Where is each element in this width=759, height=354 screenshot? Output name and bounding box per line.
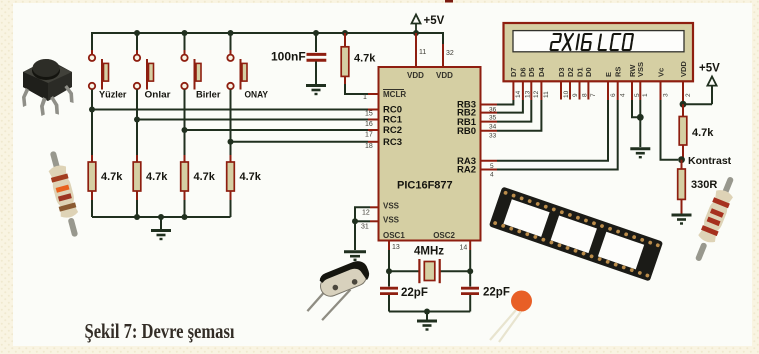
LCD pin labels [509,61,688,77]
display module 2X16 LCD [504,23,694,81]
wire: VDD pin 11 drop [415,33,417,67]
svg-text:2: 2 [685,93,692,97]
svg-text:3: 3 [662,93,669,97]
photo: DIP-40 socket [489,186,663,281]
capacitor 22pF (right) [461,271,510,311]
svg-text:VDD: VDD [436,71,453,80]
junction ONAY/RC3 [228,139,234,145]
svg-text:Onlar: Onlar [145,90,172,100]
resistor 4.7k (contrast) [679,104,714,160]
svg-text:17: 17 [365,132,373,139]
svg-text:22pF: 22pF [401,287,428,299]
wire: Vc to Kontrast node [661,100,679,160]
junction on rail at C-100nF [313,30,319,36]
svg-text:4.7k: 4.7k [692,127,714,139]
capacitor 22pF (left) [380,271,428,311]
junction bottom rail / ground [158,214,164,220]
wire: Birler column down [184,90,186,163]
wire: PIC VSS pin12 [355,207,379,221]
svg-text:E: E [604,72,613,77]
svg-text:Kontrast: Kontrast [688,155,732,167]
power symbol +5V (top) [412,15,421,34]
wire: Onlar top drop [136,33,138,55]
pushbutton ONAY [227,55,268,100]
wire: RW to VSS junction [632,100,640,117]
svg-text:32: 32 [446,50,454,57]
svg-text:34: 34 [489,124,497,131]
svg-text:Vc: Vc [656,68,665,77]
svg-text:5: 5 [634,93,641,97]
wire: D4 to RB0 [481,100,542,131]
svg-text:4: 4 [620,93,627,97]
svg-text:D7: D7 [509,67,518,77]
wire: oscillator bottom rail [389,311,470,313]
wire: RC1 row [137,119,379,121]
wire: ONAY column down [230,90,232,163]
photo: resistor (left) [44,149,84,239]
resistor 4.7k (MCLR pull-up) [341,33,376,84]
junction bottom rail / Onlar [134,214,140,220]
svg-text:D5: D5 [527,67,536,77]
svg-text:VSS: VSS [383,202,400,211]
svg-text:RB0: RB0 [457,126,476,137]
svg-text:D4: D4 [537,67,546,77]
wire: pull-up to MCLR [345,84,379,94]
svg-text:VSS: VSS [636,62,645,77]
svg-text:D0: D0 [584,67,593,77]
photo: resistor (right) [689,174,739,264]
wire: E to RA3 [481,100,609,161]
wire: Yüzler column down [91,90,93,163]
svg-text:16: 16 [365,121,373,128]
crystal X1 4MHz [389,259,470,283]
wire: ONAY top drop [230,33,232,55]
wire: RC2 row [185,129,379,131]
svg-text:VDD: VDD [679,61,688,77]
svg-text:VDD: VDD [407,71,424,80]
ground (LCD VSS) [630,149,650,158]
svg-text:22pF: 22pF [483,287,510,299]
svg-text:RS: RS [614,67,623,77]
svg-text:4.7k: 4.7k [354,53,376,65]
wire: D7 to RB3 [481,100,514,105]
svg-text:14: 14 [460,245,468,252]
svg-text:1: 1 [642,93,649,97]
svg-text:18: 18 [365,143,373,150]
ground (oscillator) [417,312,437,330]
svg-text:10: 10 [563,90,570,98]
svg-text:OSC1: OSC1 [383,231,405,240]
svg-text:D1: D1 [575,67,584,77]
svg-text:4.7k: 4.7k [240,171,262,183]
svg-text:31: 31 [361,224,369,231]
wire: Birler top drop [184,33,186,55]
wire: RC0 row [92,109,379,111]
junction OSC2/crystal [467,268,473,274]
svg-text:5: 5 [490,163,494,170]
wire: LCD VSS down [639,100,641,147]
svg-text:PIC16F877: PIC16F877 [397,180,453,192]
junction Yüzler/RC0 [89,107,95,113]
wire: RS to RA2 [481,100,618,170]
svg-text:6: 6 [610,93,617,97]
junction bottom rail / Birler [182,214,188,220]
svg-text:RA2: RA2 [457,165,476,176]
junction on rail at R-pullup [342,30,348,36]
wire: RC3 row [231,141,379,143]
svg-text:100nF: 100nF [271,50,306,64]
pushbutton Onlar [134,55,171,100]
svg-text:13: 13 [525,90,532,98]
junction on rail at ONAY [228,30,234,36]
junction Birler/RC2 [182,127,188,133]
svg-text:MCLR: MCLR [383,90,406,99]
junction on rail at +5V [413,30,419,36]
svg-text:OSC2: OSC2 [433,231,455,240]
junction osc rail / ground [424,309,430,315]
svg-text:VSS: VSS [383,216,400,225]
svg-text:33: 33 [489,133,497,140]
svg-text:RC3: RC3 [383,137,402,148]
wire: OSC2 drop [469,241,471,272]
resistor 330R [678,160,718,214]
svg-text:Birler: Birler [196,90,221,100]
svg-text:D3: D3 [557,67,566,77]
junction RW/VSS [637,114,644,121]
svg-text:35: 35 [489,115,497,122]
ground (330R) [672,215,692,224]
pushbutton Yüzler [89,55,127,100]
wire: D6 to RB2 [481,100,523,113]
wire: D5 to RB1 [481,100,532,122]
microcontroller U1 PIC16F877 [379,67,481,241]
page artifact [445,0,453,3]
ground (100nF) [306,86,326,95]
svg-text:11: 11 [543,91,550,98]
pushbutton Birler [181,55,221,100]
wire: OSC1 drop [388,241,390,272]
svg-text:11: 11 [419,49,426,56]
svg-text:D2: D2 [566,67,575,77]
svg-text:4MHz: 4MHz [414,246,444,258]
junction OSC1/crystal [386,268,392,274]
resistor 4.7k (Onlar pulldown) [133,155,168,200]
svg-text:+5V: +5V [424,15,445,27]
svg-text:13: 13 [392,244,400,251]
ground (keypad) [151,217,171,239]
svg-text:Yüzler: Yüzler [99,90,127,100]
power symbol +5V (right) [707,77,716,86]
junction VSS pins [352,218,358,224]
resistor 4.7k (Yüzler pulldown) [88,155,123,200]
wire: keypad bottom rail [92,200,231,217]
svg-text:12: 12 [362,210,370,217]
svg-text:1: 1 [363,94,367,101]
svg-text:4.7k: 4.7k [101,171,123,183]
svg-text:4: 4 [490,172,494,179]
svg-text:8: 8 [581,93,588,97]
svg-text:9: 9 [572,93,579,97]
svg-text:330R: 330R [691,179,717,191]
pin stubs of pushbuttons [91,50,93,55]
svg-text:15: 15 [365,111,373,118]
wire: Onlar column down [136,90,138,163]
svg-text:12: 12 [533,90,540,98]
wire: VDD pin 32 drop [442,44,444,67]
LCD pin stubs with numbers [513,81,683,104]
svg-text:Şekil 7: Devre şeması: Şekil 7: Devre şeması [85,319,235,343]
svg-text:14: 14 [515,90,522,98]
resistor 4.7k (Birler pulldown) [181,155,216,200]
photo: tactile pushbutton [22,59,74,116]
svg-text:+5V: +5V [699,63,720,75]
wire: LCD VDD to +5V [683,86,712,105]
photo: crystal HC-49 [307,258,372,320]
svg-text:ONAY: ONAY [245,90,269,100]
resistor 4.7k (ONAY pulldown) [227,155,262,200]
ground (PIC VSS) [344,252,366,260]
photo: ceramic capacitor [490,291,532,343]
junction on rail at Birler [182,30,188,36]
wire: VSS to ground [354,221,356,250]
svg-text:4.7k: 4.7k [146,171,168,183]
svg-text:4.7k: 4.7k [194,171,216,183]
node Kontrast [678,156,685,163]
wire: PIC VSS pin31 [355,220,379,222]
svg-text:7: 7 [590,93,597,97]
wire: +5V top rail [92,33,443,67]
capacitor 100nF [271,33,326,84]
svg-text:RC1: RC1 [383,115,403,126]
junction on rail at Onlar [134,30,140,36]
junction VDD/+5V [680,101,687,108]
junction Onlar/RC1 [134,117,140,123]
svg-text:RC2: RC2 [383,125,402,136]
svg-text:36: 36 [489,107,497,114]
